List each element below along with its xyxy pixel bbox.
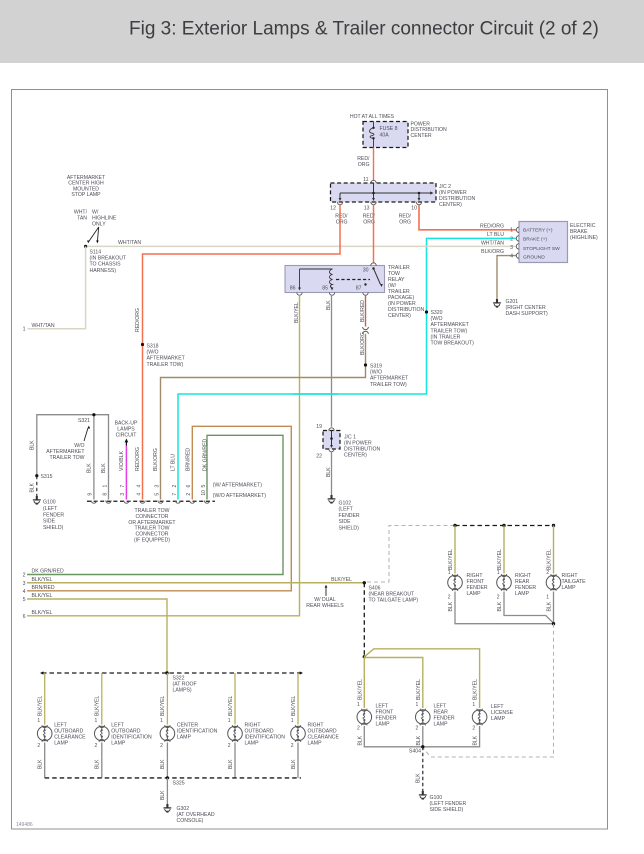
relay switch arm xyxy=(374,269,381,285)
wire BLK right front fender lamp return xyxy=(455,592,552,624)
lamp RIGHT OUTBOARD CLEARANCE LAMP xyxy=(291,725,306,742)
svg-text:5: 5 xyxy=(23,597,26,603)
svg-text:FENDER: FENDER xyxy=(339,513,360,519)
wire BLK right tailgate lamp return xyxy=(553,592,555,624)
svg-text:BRAKE (+): BRAKE (+) xyxy=(523,237,547,243)
ground G102 xyxy=(328,495,336,503)
svg-text:LAMP: LAMP xyxy=(376,722,391,728)
svg-text:SHIELD): SHIELD) xyxy=(43,525,64,531)
svg-text:40A: 40A xyxy=(380,132,390,138)
svg-text:LAMP: LAMP xyxy=(562,585,577,591)
svg-text:1: 1 xyxy=(510,228,513,234)
lamp LEFT REAR FENDER LAMP xyxy=(416,709,431,726)
splice S404 xyxy=(421,745,424,748)
svg-text:BLK/YEL: BLK/YEL xyxy=(32,577,53,583)
svg-text:1: 1 xyxy=(416,702,419,708)
trailer tow relay box xyxy=(285,266,385,293)
inline connector on relay 87 wire xyxy=(363,327,369,334)
svg-text:1: 1 xyxy=(448,570,451,576)
lamp LEFT OUTBOARD CLEARANCE LAMP xyxy=(37,725,52,742)
svg-text:BLK/YEL: BLK/YEL xyxy=(473,679,479,700)
W/ DUAL REAR WHEELS pointer arrow xyxy=(325,585,328,588)
svg-text:BLK: BLK xyxy=(326,300,332,310)
wire BLK S321 branch to connector pin 9 xyxy=(93,415,95,500)
pointer arrow to S321 xyxy=(84,428,88,441)
harness gray dashed from S406 up to right cluster bus xyxy=(367,526,454,583)
wire BLK lamp return xyxy=(101,743,103,778)
svg-text:CONSOLE): CONSOLE) xyxy=(177,818,204,824)
svg-text:CIRCUIT: CIRCUIT xyxy=(116,432,138,438)
svg-text:30: 30 xyxy=(363,268,369,274)
wire BLK relay pin 85 to J/C1 pin 19 xyxy=(331,295,333,427)
title bar xyxy=(0,0,644,63)
wire BLK left license lamp return xyxy=(424,726,480,747)
svg-text:2: 2 xyxy=(291,743,294,749)
svg-text:(LEFT: (LEFT xyxy=(43,506,58,512)
svg-text:BLK: BLK xyxy=(448,601,454,611)
splice S319 xyxy=(364,363,367,366)
svg-text:BLK/YEL: BLK/YEL xyxy=(228,695,234,716)
svg-text:S320: S320 xyxy=(431,310,443,316)
svg-text:SHIELD): SHIELD) xyxy=(339,525,360,531)
svg-text:BLK/ORG: BLK/ORG xyxy=(481,249,504,255)
svg-text:STOP LAMP: STOP LAMP xyxy=(71,192,101,198)
relay pin 30 terminal xyxy=(371,263,376,266)
svg-text:1: 1 xyxy=(472,702,475,708)
svg-text:BLK/YEL: BLK/YEL xyxy=(448,549,454,570)
wire BLK/YEL drop to LEFT OUTBOARD IDENTIFICATION LAMP xyxy=(101,673,103,725)
svg-text:WHT/TAN: WHT/TAN xyxy=(118,240,141,246)
fuse F8 element xyxy=(370,122,374,148)
wire BLK left front fender lamp return xyxy=(364,726,421,747)
right cluster dashed bus BLK/YEL xyxy=(455,525,554,527)
wire BLK/YEL drop to RIGHT OUTBOARD CLEARANCE LAMP xyxy=(297,673,299,725)
svg-text:CENTER): CENTER) xyxy=(388,313,411,319)
svg-text:BLK: BLK xyxy=(95,759,101,769)
svg-text:G100: G100 xyxy=(43,500,56,506)
svg-text:(W/ AFTERMARKET): (W/ AFTERMARKET) xyxy=(213,483,262,489)
trailer tow connector dashed line xyxy=(87,500,215,502)
svg-text:TRAILER TOW): TRAILER TOW) xyxy=(431,328,468,334)
svg-text:BLK: BLK xyxy=(547,601,553,611)
svg-text:BLK/YEL: BLK/YEL xyxy=(291,695,297,716)
svg-text:BLK/YEL: BLK/YEL xyxy=(32,610,53,616)
lamp RIGHT TAILGATE LAMP xyxy=(546,574,561,591)
svg-text:BLK/YEL: BLK/YEL xyxy=(331,577,352,583)
svg-text:BATTERY (+): BATTERY (+) xyxy=(523,228,553,234)
svg-text:LAMP: LAMP xyxy=(515,591,530,597)
wire BLK/YEL drop to RIGHT REAR FENDER LAMP xyxy=(503,526,505,574)
lamp LEFT FRONT FENDER LAMP xyxy=(357,709,372,726)
svg-text:CENTER): CENTER) xyxy=(439,202,462,208)
svg-text:BLK/YEL: BLK/YEL xyxy=(294,302,300,323)
electric brake module box xyxy=(519,222,568,263)
svg-text:DK GRN/RED: DK GRN/RED xyxy=(32,569,65,575)
svg-text:LT BLU: LT BLU xyxy=(171,454,177,471)
wire BLK/RED relay pin 87 to inline connector xyxy=(365,295,367,327)
wire RED/ORG J/C2 pin 10 to electric brake pin 1 xyxy=(419,205,517,230)
svg-text:LAMP: LAMP xyxy=(54,741,69,747)
svg-text:2: 2 xyxy=(95,743,98,749)
wire LT BLU to electric brake pin 2 xyxy=(178,238,517,499)
wire BLK/YEL drop to RIGHT TAILGATE LAMP xyxy=(553,526,555,574)
svg-text:1: 1 xyxy=(546,595,549,601)
ground G100 left xyxy=(33,496,41,504)
svg-text:2: 2 xyxy=(546,570,549,576)
svg-text:ONLY: ONLY xyxy=(92,222,106,228)
svg-text:(IF EQUIPPED): (IF EQUIPPED) xyxy=(134,538,170,544)
connector terminal xyxy=(175,501,180,504)
svg-text:RED/ORG: RED/ORG xyxy=(135,308,141,332)
splice S318 on RED/ORG xyxy=(141,343,144,346)
svg-text:RED/ORG: RED/ORG xyxy=(480,223,504,229)
svg-text:LAMP: LAMP xyxy=(308,741,323,747)
svg-text:87: 87 xyxy=(356,286,362,292)
svg-text:AFTERMARKET: AFTERMARKET xyxy=(370,376,409,382)
svg-text:BLK/YEL: BLK/YEL xyxy=(95,695,101,716)
svg-text:TO TAILGATE LAMP): TO TAILGATE LAMP) xyxy=(369,597,419,603)
wire BLK S315 up and over to trailer connector pins xyxy=(37,415,109,500)
backup lamps arrow xyxy=(125,439,129,443)
svg-text:CENTER): CENTER) xyxy=(344,453,367,459)
pointer arrows to S114 xyxy=(89,227,99,242)
splice S322 on roof bus xyxy=(165,671,168,674)
svg-text:86: 86 xyxy=(290,286,296,292)
svg-text:LAMP: LAMP xyxy=(467,591,482,597)
svg-text:BLK/YEL: BLK/YEL xyxy=(547,549,553,570)
svg-text:SIDE SHIELD): SIDE SHIELD) xyxy=(430,807,464,813)
svg-text:S318: S318 xyxy=(147,344,159,350)
svg-text:BLK/YEL: BLK/YEL xyxy=(357,679,363,700)
wire BLK/YEL drop to LEFT OUTBOARD CLEARANCE LAMP xyxy=(44,673,46,725)
connector terminal xyxy=(204,501,209,504)
svg-text:BLK/YEL: BLK/YEL xyxy=(38,695,44,716)
svg-text:1: 1 xyxy=(357,702,360,708)
wire BLK left rear fender lamp return xyxy=(422,726,424,747)
lamp LEFT OUTBOARD IDENTIFICATION LAMP xyxy=(95,725,110,742)
svg-text:LAMP: LAMP xyxy=(245,741,260,747)
svg-text:10: 10 xyxy=(201,490,207,496)
wire BRN/RED connector to left edge pin 4 (U path) xyxy=(27,426,291,591)
svg-text:S319: S319 xyxy=(370,364,382,370)
svg-text:6: 6 xyxy=(23,614,26,620)
wire BLK S315 to ground G100 dashed xyxy=(36,476,38,497)
svg-text:BLK: BLK xyxy=(357,735,363,745)
svg-text:TOW BREAKOUT): TOW BREAKOUT) xyxy=(431,341,475,347)
connector terminal xyxy=(158,501,163,504)
svg-text:BLK: BLK xyxy=(326,467,332,477)
svg-text:SIDE: SIDE xyxy=(43,519,56,525)
black dashed harness S406 down to left cluster junction xyxy=(363,583,365,657)
svg-text:BLK: BLK xyxy=(497,601,503,611)
wire BLK S404 to ground G100 dashed xyxy=(422,747,424,792)
svg-text:BRN/RED: BRN/RED xyxy=(32,585,55,591)
svg-text:4: 4 xyxy=(136,493,142,496)
svg-text:VIO/BLK: VIO/BLK xyxy=(119,450,125,471)
svg-text:22: 22 xyxy=(316,454,322,460)
svg-text:ORG: ORG xyxy=(358,162,370,168)
svg-text:6: 6 xyxy=(186,485,192,488)
svg-text:BLK: BLK xyxy=(228,759,234,769)
svg-text:S404: S404 xyxy=(409,749,421,755)
svg-text:(W/O: (W/O xyxy=(370,370,382,376)
svg-text:BLK: BLK xyxy=(30,482,36,492)
svg-text:4: 4 xyxy=(136,485,142,488)
ground G100 rear xyxy=(419,791,427,799)
harness gray dashed right cluster to S404 xyxy=(423,624,553,757)
svg-text:1: 1 xyxy=(37,718,40,724)
wire BLK lamp return xyxy=(166,743,168,778)
svg-text:WHT/TAN: WHT/TAN xyxy=(481,240,504,246)
J/C2 internal bus xyxy=(340,183,431,200)
svg-text:LAMP: LAMP xyxy=(434,722,449,728)
connector terminal xyxy=(91,501,96,504)
svg-text:5: 5 xyxy=(154,493,160,496)
svg-text:STOPLIGHT SW: STOPLIGHT SW xyxy=(523,246,560,252)
svg-text:BLK: BLK xyxy=(160,759,166,769)
svg-text:(W/O AFTERMARKET): (W/O AFTERMARKET) xyxy=(213,493,266,499)
svg-text:BLK/YEL: BLK/YEL xyxy=(497,549,503,570)
wire BLK/YEL to left front fender lamp xyxy=(363,657,365,708)
connector terminal xyxy=(106,501,111,504)
svg-text:S315: S315 xyxy=(41,474,53,480)
fuse F8 box (Power Distribution Center) xyxy=(363,122,408,148)
svg-text:ORG: ORG xyxy=(336,220,348,226)
svg-text:4: 4 xyxy=(23,589,26,595)
svg-text:Fig 3: Exterior Lamps & Traile: Fig 3: Exterior Lamps & Trailer connecto… xyxy=(129,19,599,40)
svg-text:TRAILER TOW): TRAILER TOW) xyxy=(147,362,184,368)
svg-text:13: 13 xyxy=(364,206,370,212)
wire BLK/YEL left edge pin 3 to S406 xyxy=(27,582,364,584)
wire VIO/BLK backup lamps circuit xyxy=(125,446,127,500)
wire WHT/TAN S114 to left edge pin 1 xyxy=(28,246,86,328)
lamp CENTER IDENTIFICATION LAMP xyxy=(160,725,175,742)
svg-text:5: 5 xyxy=(201,485,207,488)
wire BLK lamp return xyxy=(297,743,299,778)
wire BLK/YEL to left rear fender lamp xyxy=(364,658,423,709)
svg-text:TRAILER TOW: TRAILER TOW xyxy=(50,455,85,461)
wire WHT/TAN S114 to electric brake pin 3 xyxy=(86,245,517,247)
svg-text:BLK/RED: BLK/RED xyxy=(360,300,366,322)
svg-text:1: 1 xyxy=(160,718,163,724)
splice S320 on LT BLU xyxy=(425,310,428,313)
svg-text:LT BLU: LT BLU xyxy=(487,232,504,238)
svg-text:RED/: RED/ xyxy=(399,213,412,219)
svg-text:AFTERMARKET: AFTERMARKET xyxy=(431,322,470,328)
lamp RIGHT REAR FENDER LAMP xyxy=(497,574,512,591)
svg-text:8: 8 xyxy=(102,493,108,496)
svg-text:LAMP: LAMP xyxy=(111,741,126,747)
svg-text:BRN/RED: BRN/RED xyxy=(186,448,192,471)
svg-text:DASH SUPPORT): DASH SUPPORT) xyxy=(506,311,548,317)
svg-text:BLK: BLK xyxy=(473,735,479,745)
svg-text:BLK/ORG: BLK/ORG xyxy=(153,448,159,471)
svg-text:2: 2 xyxy=(23,573,26,579)
svg-text:2: 2 xyxy=(357,726,360,732)
svg-text:3: 3 xyxy=(23,581,26,587)
svg-text:2: 2 xyxy=(448,595,451,601)
splice S315 xyxy=(35,474,38,477)
svg-text:BLK: BLK xyxy=(87,463,93,473)
junction left cluster BLK/YEL xyxy=(363,655,366,658)
wire BLK/ORG inline connector to S319 to trailer connector xyxy=(161,334,366,500)
svg-text:BLK: BLK xyxy=(416,735,422,745)
svg-text:2: 2 xyxy=(186,493,192,496)
ground G302 xyxy=(164,804,172,812)
wire RED/ORG J/C2 pin 13 to relay pin 30 xyxy=(373,205,375,264)
svg-text:CENTER: CENTER xyxy=(411,133,432,139)
wire DK GRN/RED connector to left edge pin 2 (U path) xyxy=(27,435,283,574)
svg-text:1: 1 xyxy=(95,718,98,724)
svg-text:149486: 149486 xyxy=(16,822,33,828)
wire BLK lamp return xyxy=(234,743,236,778)
svg-text:2: 2 xyxy=(416,726,419,732)
svg-text:BLK: BLK xyxy=(30,440,36,450)
svg-text:2: 2 xyxy=(472,726,475,732)
svg-text:SIDE: SIDE xyxy=(339,519,352,525)
svg-text:(W/O: (W/O xyxy=(147,350,159,356)
wire LT BLU overlay at crossings xyxy=(293,393,338,395)
lamp RIGHT OUTBOARD IDENTIFICATION LAMP xyxy=(228,725,243,742)
svg-text:11: 11 xyxy=(363,177,368,183)
svg-text:2: 2 xyxy=(172,485,178,488)
svg-text:1: 1 xyxy=(23,327,26,333)
svg-text:LAMP: LAMP xyxy=(491,716,506,722)
svg-text:2: 2 xyxy=(160,743,163,749)
wire BLK/YEL drop to RIGHT OUTBOARD IDENTIFICATION LAMP xyxy=(234,673,236,725)
svg-text:BLK: BLK xyxy=(160,790,166,800)
wire BLK lamp return xyxy=(44,743,46,778)
svg-text:RED/ORG: RED/ORG xyxy=(135,447,141,471)
wire BLK/YEL drop to RIGHT FRONT FENDER LAMP xyxy=(454,526,456,574)
svg-text:BLK: BLK xyxy=(38,759,44,769)
svg-text:TO CHASSIS: TO CHASSIS xyxy=(90,262,122,268)
svg-text:(LEFT: (LEFT xyxy=(339,507,354,513)
svg-text:19: 19 xyxy=(316,424,322,430)
svg-text:REAR WHEELS: REAR WHEELS xyxy=(306,603,344,609)
svg-text:HARNESS): HARNESS) xyxy=(90,268,117,274)
svg-text:BLK/YEL: BLK/YEL xyxy=(160,695,166,716)
svg-text:(IN BREAKOUT: (IN BREAKOUT xyxy=(90,256,127,262)
splice S321 xyxy=(92,413,95,416)
wire BLK/YEL relay pin 86 to left edge pin 6 xyxy=(27,295,300,616)
svg-text:LAMP: LAMP xyxy=(177,735,192,741)
lamp RIGHT FRONT FENDER LAMP xyxy=(448,574,463,591)
svg-text:9: 9 xyxy=(88,493,94,496)
svg-text:2: 2 xyxy=(228,743,231,749)
svg-text:BLK: BLK xyxy=(101,463,107,473)
relay contact dashed link xyxy=(336,279,370,281)
svg-text:GROUND: GROUND xyxy=(523,255,545,261)
svg-text:TAN: TAN xyxy=(77,216,87,222)
svg-text:BLK/ORG: BLK/ORG xyxy=(360,332,366,355)
svg-text:3: 3 xyxy=(120,493,126,496)
junction right cluster BLK xyxy=(552,622,555,625)
wire RED/ORG J/C2 pin 12 to trailer tow connector xyxy=(143,205,341,500)
roof lamps bottom dashed bus xyxy=(45,777,301,779)
splice S406 xyxy=(363,581,366,584)
svg-text:1: 1 xyxy=(228,718,231,724)
svg-text:(HIGHLINE): (HIGHLINE) xyxy=(570,235,598,241)
svg-text:RED/: RED/ xyxy=(335,213,348,219)
svg-text:1: 1 xyxy=(497,570,500,576)
svg-text:85: 85 xyxy=(322,286,328,292)
svg-text:3: 3 xyxy=(154,485,160,488)
svg-text:7: 7 xyxy=(172,493,178,496)
svg-text:RED/: RED/ xyxy=(357,156,370,162)
roof lamps top dashed bus xyxy=(42,672,301,674)
svg-text:1: 1 xyxy=(102,485,108,488)
svg-text:4: 4 xyxy=(510,254,513,260)
wire BLK/ORG electric brake pin 4 to ground G201 xyxy=(497,256,517,300)
wire RED/ORG fuse to J/C2 pin 11 xyxy=(373,148,375,181)
wire BLK J/C1 to ground G102 xyxy=(331,452,333,496)
svg-text:FENDER: FENDER xyxy=(43,512,64,518)
wire BLK/YEL drop to CENTER IDENTIFICATION LAMP xyxy=(166,673,168,725)
svg-text:2: 2 xyxy=(510,236,513,242)
ground G201 xyxy=(493,299,501,307)
svg-text:12: 12 xyxy=(330,206,336,212)
svg-text:(W/O: (W/O xyxy=(431,316,443,322)
connector terminal xyxy=(140,501,145,504)
wire BLK S325 to ground G302 xyxy=(166,778,168,805)
svg-text:2: 2 xyxy=(37,743,40,749)
svg-text:AFTERMARKET: AFTERMARKET xyxy=(147,356,186,362)
svg-text:S114: S114 xyxy=(90,250,102,256)
svg-text:10: 10 xyxy=(411,206,417,212)
svg-text:BLK/YEL: BLK/YEL xyxy=(416,679,422,700)
svg-text:BLK: BLK xyxy=(291,759,297,769)
wire BLK right rear fender lamp return xyxy=(504,592,554,624)
junction block J/C 2 box xyxy=(331,183,437,202)
svg-text:BLK: BLK xyxy=(416,773,422,783)
svg-text:TRAILER TOW): TRAILER TOW) xyxy=(370,382,407,388)
svg-text:1: 1 xyxy=(291,718,294,724)
wire BLK/YEL left edge pin 5 to roof lamps bus S322 xyxy=(27,599,167,673)
svg-text:HOT AT ALL TIMES: HOT AT ALL TIMES xyxy=(350,114,395,120)
wire BLK/YEL to left license lamp xyxy=(364,649,479,708)
connector terminal xyxy=(124,501,129,504)
svg-text:S321: S321 xyxy=(78,418,90,424)
svg-text:FUSE 8: FUSE 8 xyxy=(380,126,398,132)
svg-text:LAMPS): LAMPS) xyxy=(173,688,192,694)
connector terminal xyxy=(190,501,195,504)
splice S325 xyxy=(166,776,169,779)
svg-text:2: 2 xyxy=(497,595,500,601)
svg-text:ORG: ORG xyxy=(399,220,411,226)
relay coil circuit xyxy=(300,269,333,288)
svg-text:WHT/TAN: WHT/TAN xyxy=(32,323,55,329)
svg-text:G102: G102 xyxy=(339,501,352,507)
svg-text:7: 7 xyxy=(120,485,126,488)
svg-text:3: 3 xyxy=(510,245,513,251)
svg-text:S325: S325 xyxy=(173,781,185,787)
lamp LEFT LICENSE LAMP xyxy=(472,709,487,726)
splice S114 xyxy=(84,245,87,248)
svg-text:(IN TRAILER: (IN TRAILER xyxy=(431,334,461,340)
